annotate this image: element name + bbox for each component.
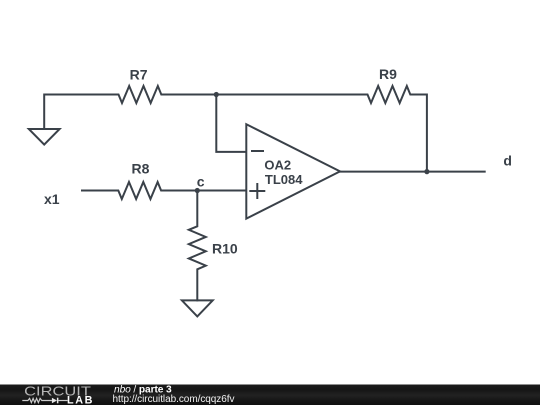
- svg-text:LAB: LAB: [67, 394, 94, 405]
- svg-text:R9: R9: [379, 66, 397, 82]
- svg-text:d: d: [503, 152, 512, 168]
- svg-text:c: c: [197, 173, 205, 189]
- svg-text:TL084: TL084: [265, 172, 303, 187]
- svg-text:OA2: OA2: [264, 157, 291, 172]
- svg-text:http://circuitlab.com/cqqz6fv: http://circuitlab.com/cqqz6fv: [113, 394, 235, 405]
- svg-text:x1: x1: [44, 191, 60, 207]
- svg-text:R8: R8: [132, 161, 150, 177]
- svg-text:R7: R7: [130, 66, 148, 82]
- svg-text:R10: R10: [212, 241, 238, 257]
